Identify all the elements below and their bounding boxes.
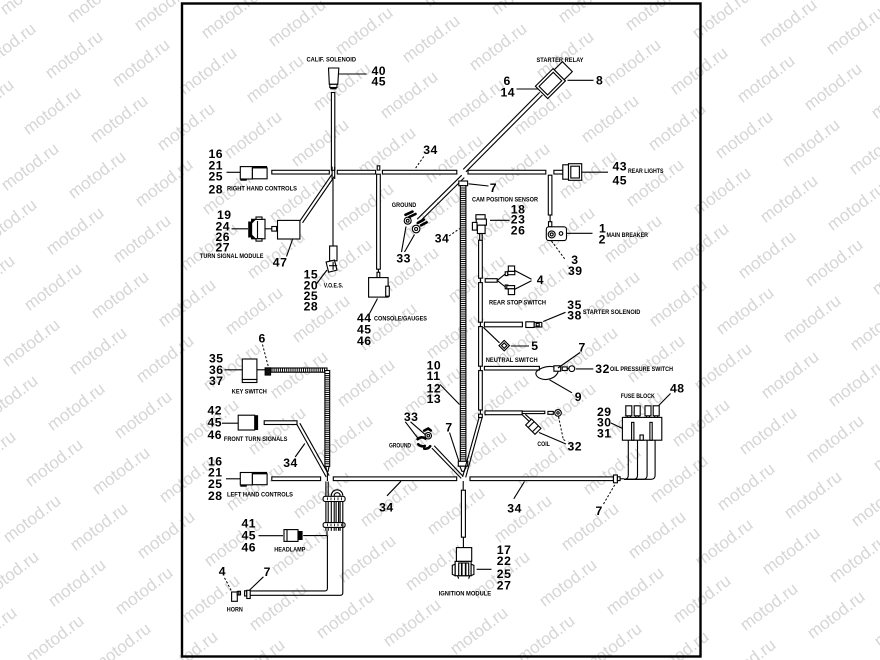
label 7 horn connector xyxy=(249,565,271,590)
svg-text:9: 9 xyxy=(575,390,582,404)
svg-text:V.O.E.S.: V.O.E.S. xyxy=(324,283,344,290)
label 5 neutral switch xyxy=(511,339,539,353)
switch REAR STOP SWITCH xyxy=(485,266,546,307)
label 10 11 12 13 center harness xyxy=(427,359,460,407)
svg-text:34: 34 xyxy=(283,456,298,470)
svg-text:CALIF. SOLENOID: CALIF. SOLENOID xyxy=(307,57,357,64)
svg-text:34: 34 xyxy=(435,232,450,246)
label 16 21 25 28 left hand controls xyxy=(208,455,223,504)
svg-text:KEY SWITCH: KEY SWITCH xyxy=(232,389,267,396)
wire front turn signals to bottom bus xyxy=(264,421,329,477)
svg-text:FRONT TURN SIGNALS: FRONT TURN SIGNALS xyxy=(224,436,288,443)
svg-text:27: 27 xyxy=(497,578,512,592)
svg-text:28: 28 xyxy=(208,489,223,503)
svg-text:13: 13 xyxy=(427,392,442,406)
connector FRONT TURN SIGNALS xyxy=(222,415,288,443)
breaker drop wire xyxy=(548,175,552,227)
switch KEY SWITCH xyxy=(225,359,271,396)
svg-text:46: 46 xyxy=(208,428,223,442)
label 17 22 25 27 ignition module xyxy=(477,543,512,593)
switch V.O.E.S. xyxy=(324,246,344,290)
wire calif solenoid drop xyxy=(331,93,334,171)
wire starter relay to junction xyxy=(463,92,542,171)
label 7 oil pressure connector xyxy=(558,340,586,368)
svg-text:COIL: COIL xyxy=(537,441,550,448)
wire headlamp bracket loop xyxy=(326,472,343,531)
svg-text:CAM POSITION SENSOR: CAM POSITION SENSOR xyxy=(472,196,538,203)
switch OIL PRESSURE SWITCH lead xyxy=(484,366,673,380)
svg-text:7: 7 xyxy=(490,181,497,195)
svg-text:OIL PRESSURE SWITCH: OIL PRESSURE SWITCH xyxy=(610,366,673,373)
wire center harness (cam sensor lead) xyxy=(479,240,483,417)
sensor CAM POSITION SENSOR xyxy=(472,196,538,240)
label 6 14 for starter relay wire xyxy=(501,74,539,100)
label 47 turn signal module box xyxy=(273,240,293,270)
svg-text:26: 26 xyxy=(511,223,526,237)
wire main harness top bus 34 xyxy=(272,170,563,174)
svg-text:GROUND: GROUND xyxy=(389,443,411,450)
label 16 21 25 28 right hand controls xyxy=(209,147,224,196)
svg-text:27: 27 xyxy=(216,241,231,255)
wire lower ground to junction xyxy=(432,446,463,479)
label 33 upper ground xyxy=(396,227,414,266)
coil connector COIL xyxy=(526,419,550,448)
label 18 23 26 cam sensor xyxy=(490,203,525,238)
svg-text:7: 7 xyxy=(445,421,452,435)
label 34 conduit callout xyxy=(435,229,460,246)
wire turn signal module to bus junction xyxy=(300,174,335,222)
connector RIGHT HAND CONTROLS xyxy=(227,166,298,193)
label 40 45 for calif solenoid xyxy=(339,64,386,88)
label 15 20 25 28 voes xyxy=(304,268,327,314)
connector LEFT HAND CONTROLS xyxy=(226,472,293,499)
label 34 front harness callout xyxy=(283,444,305,470)
label 8 for starter relay xyxy=(568,74,604,88)
connector HEADLAMP xyxy=(274,530,305,554)
label 3 39 main breaker stud xyxy=(552,241,583,278)
label 35 36 37 key switch xyxy=(209,352,224,389)
svg-text:33: 33 xyxy=(396,252,411,266)
label 7 conduit fitting xyxy=(469,181,498,195)
svg-text:LEFT HAND CONTROLS: LEFT HAND CONTROLS xyxy=(227,492,293,499)
svg-text:5: 5 xyxy=(531,339,538,353)
wire coil diagonal leader to 32 xyxy=(539,433,566,445)
svg-text:STARTER RELAY: STARTER RELAY xyxy=(537,57,584,64)
svg-text:CONSOLE/GAUGES: CONSOLE/GAUGES xyxy=(374,316,427,323)
connector barrel on bottom bus xyxy=(614,475,621,483)
svg-text:REAR STOP SWITCH: REAR STOP SWITCH xyxy=(489,300,546,307)
svg-text:47: 47 xyxy=(273,256,288,270)
connector REAR LIGHTS xyxy=(563,164,664,181)
svg-text:31: 31 xyxy=(597,427,612,441)
svg-text:NEUTRAL SWITCH: NEUTRAL SWITCH xyxy=(486,357,538,364)
label 7 bottom bus barrel connector xyxy=(596,484,616,519)
svg-text:HORN: HORN xyxy=(227,606,243,613)
svg-text:43: 43 xyxy=(613,160,628,174)
svg-text:14: 14 xyxy=(501,86,516,100)
breaker MAIN BREAKER xyxy=(546,227,648,241)
svg-text:39: 39 xyxy=(568,264,583,278)
wire center harness V to lower junction xyxy=(463,418,483,478)
wire bus to V.O.E.S. xyxy=(332,179,334,246)
label 41 45 46 headlamp xyxy=(242,517,284,555)
ground ring terminals (upper GROUND) xyxy=(392,202,427,233)
svg-text:46: 46 xyxy=(357,334,372,348)
svg-text:45: 45 xyxy=(613,174,628,188)
switch NEUTRAL SWITCH xyxy=(483,327,537,364)
svg-text:HEADLAMP: HEADLAMP xyxy=(274,547,305,554)
label 44 45 46 console xyxy=(357,299,378,349)
svg-text:IGNITION MODULE: IGNITION MODULE xyxy=(439,590,492,597)
ground clamp (lower GROUND) xyxy=(389,429,431,450)
horn HORN xyxy=(227,590,250,613)
wire key switch conduit xyxy=(271,368,330,472)
solenoid CALIF. SOLENOID xyxy=(307,57,357,90)
label 33 lower ground xyxy=(404,410,426,440)
svg-text:34: 34 xyxy=(423,143,438,157)
wire bus drop to console xyxy=(377,166,381,278)
svg-text:7: 7 xyxy=(264,565,271,579)
svg-text:4: 4 xyxy=(219,565,226,579)
label 32 coil xyxy=(559,417,583,454)
svg-text:32: 32 xyxy=(595,362,610,376)
label 7 lower conduit tip xyxy=(445,421,458,462)
wire bracket to horn xyxy=(250,502,343,596)
wire main harness bottom bus 34 xyxy=(272,477,614,481)
label 6 key switch fitting xyxy=(259,331,269,366)
svg-text:2: 2 xyxy=(599,233,606,247)
svg-text:RIGHT HAND CONTROLS: RIGHT HAND CONTROLS xyxy=(227,186,297,193)
svg-text:32: 32 xyxy=(568,440,583,454)
svg-text:28: 28 xyxy=(209,183,224,197)
wire junction to ground xyxy=(417,175,464,221)
svg-text:6: 6 xyxy=(259,331,266,345)
svg-text:8: 8 xyxy=(596,74,603,88)
wire starter solenoid lead xyxy=(484,322,541,328)
svg-text:STARTER SOLENOID: STARTER SOLENOID xyxy=(583,309,641,316)
svg-text:GROUND: GROUND xyxy=(392,202,417,209)
label 19 24 26 27 turn signal module xyxy=(216,208,249,255)
svg-text:34: 34 xyxy=(507,501,522,515)
label 43 45 rear lights xyxy=(582,160,627,188)
wire fuse block leads xyxy=(620,440,655,479)
label 42 45 46 front turn signals xyxy=(208,403,223,442)
label 35 38 STARTER SOLENOID xyxy=(543,298,640,322)
svg-text:48: 48 xyxy=(670,382,685,396)
relay K1 STARTER RELAY xyxy=(535,57,583,99)
label 9 oil pressure loop xyxy=(550,380,582,404)
svg-text:37: 37 xyxy=(209,374,224,388)
fuse block FUSE BLOCK xyxy=(621,393,662,440)
svg-text:38: 38 xyxy=(567,308,582,322)
svg-text:28: 28 xyxy=(304,300,319,314)
clamp upper headlamp bracket xyxy=(323,496,345,501)
node junction calif solenoid / bus xyxy=(332,167,335,179)
module IGNITION MODULE xyxy=(439,548,492,598)
svg-text:FUSE BLOCK: FUSE BLOCK xyxy=(621,393,655,400)
label 4 horn xyxy=(219,565,232,591)
connector TURN SIGNAL MODULE xyxy=(200,217,300,260)
svg-text:TURN SIGNAL MODULE: TURN SIGNAL MODULE xyxy=(200,253,264,260)
wire ignition module drop xyxy=(461,481,465,548)
label 34 top harness callout xyxy=(415,143,438,169)
label 29 30 31 fuse block xyxy=(597,405,623,441)
svg-text:34: 34 xyxy=(379,500,394,514)
svg-text:4: 4 xyxy=(537,273,544,287)
svg-text:25: 25 xyxy=(209,169,224,183)
label 1 2 main breaker xyxy=(567,221,607,246)
svg-text:46: 46 xyxy=(242,541,257,555)
label 34 bottom bus right callout xyxy=(507,482,524,516)
label 32 oil pressure switch xyxy=(576,362,610,376)
wire conduit cam position sensor harness xyxy=(458,181,467,471)
svg-text:45: 45 xyxy=(372,74,387,88)
wire headlamp tap xyxy=(303,531,327,536)
svg-text:MAIN BREAKER: MAIN BREAKER xyxy=(607,232,649,239)
label 48 fuse xyxy=(659,382,685,406)
svg-text:REAR LIGHTS: REAR LIGHTS xyxy=(628,168,664,175)
label 34 bottom bus left callout xyxy=(379,481,401,514)
clamp lower headlamp bracket xyxy=(323,523,345,528)
wire coil lead xyxy=(485,410,561,422)
svg-text:7: 7 xyxy=(596,504,603,518)
gauge unit CONSOLE/GAUGES xyxy=(369,278,428,323)
label 4 rear stop switch xyxy=(515,271,544,290)
